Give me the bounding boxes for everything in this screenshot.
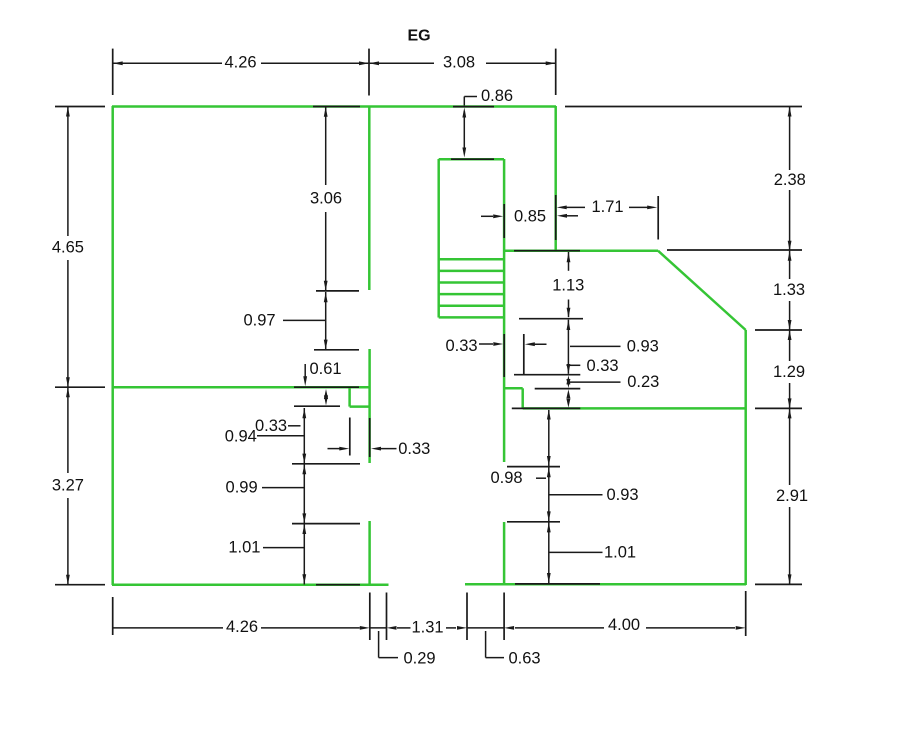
svg-text:0.33: 0.33 [586,357,618,375]
svg-text:1.33: 1.33 [773,281,805,299]
svg-text:0.33: 0.33 [445,337,477,355]
svg-text:4.26: 4.26 [226,618,258,636]
svg-text:0.63: 0.63 [508,649,540,667]
svg-text:2.38: 2.38 [774,171,806,189]
svg-text:0.61: 0.61 [309,360,341,378]
svg-text:0.94: 0.94 [225,427,257,445]
svg-text:0.29: 0.29 [403,649,435,667]
svg-text:2.91: 2.91 [776,487,808,505]
svg-text:1.29: 1.29 [773,363,805,381]
svg-text:0.93: 0.93 [606,486,638,504]
svg-text:3.27: 3.27 [52,477,84,495]
svg-text:4.26: 4.26 [224,54,256,72]
svg-text:4.65: 4.65 [52,239,84,257]
svg-text:0.33: 0.33 [255,417,287,435]
svg-text:3.08: 3.08 [443,54,475,72]
svg-text:1.13: 1.13 [552,276,584,294]
svg-text:4.00: 4.00 [608,616,640,634]
svg-text:0.98: 0.98 [490,469,522,487]
svg-text:0.33: 0.33 [398,440,430,458]
svg-text:0.86: 0.86 [481,87,513,105]
svg-text:1.01: 1.01 [604,543,636,561]
svg-text:0.85: 0.85 [514,208,546,226]
svg-text:EG: EG [407,27,430,44]
svg-text:3.06: 3.06 [310,190,342,208]
svg-text:0.93: 0.93 [627,337,659,355]
svg-text:1.71: 1.71 [591,198,623,216]
svg-text:1.31: 1.31 [411,619,443,637]
svg-text:0.99: 0.99 [226,479,258,497]
svg-text:0.97: 0.97 [243,312,275,330]
svg-text:1.01: 1.01 [228,539,260,557]
svg-text:0.23: 0.23 [627,373,659,391]
